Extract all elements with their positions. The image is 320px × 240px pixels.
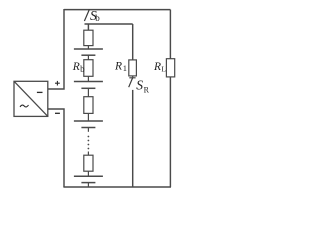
resistor R1 (129, 60, 137, 76)
svg-text:S: S (136, 78, 143, 93)
battery cell 1 short plate (81, 54, 95, 56)
svg-text:b: b (80, 64, 85, 74)
wire (87, 171, 89, 176)
svg-text:1: 1 (123, 63, 127, 73)
resistor Rb (cell 2 internal resistance) (84, 60, 93, 77)
wire column top stub (87, 24, 89, 30)
rectifier AC tilde symbol (20, 105, 29, 107)
svg-text:R: R (153, 61, 161, 73)
svg-text:R: R (72, 61, 80, 73)
battery cell 1 long plate (74, 48, 103, 50)
wire second horizontal node A (85, 23, 133, 25)
battery cell 2 long plate (74, 81, 103, 83)
wire (87, 76, 89, 81)
svg-text:b: b (95, 13, 100, 23)
wire (132, 76, 134, 78)
rectifier DC minus symbol (37, 91, 43, 93)
wire R1 branch upper (132, 24, 134, 60)
battery cell 2 short plate (81, 87, 95, 89)
wire (87, 152, 89, 156)
label + terminal (55, 81, 60, 86)
wire (87, 55, 89, 60)
wire R1 branch lower (132, 90, 134, 187)
wire bottom horizontal (63, 186, 171, 188)
rectifier U1 box (14, 81, 48, 116)
switch SR contact tick (129, 77, 135, 79)
wire top horizontal (64, 9, 170, 11)
resistor RL (166, 59, 174, 77)
wire RL branch upper (169, 10, 171, 59)
svg-text:R: R (114, 61, 122, 73)
wire (87, 183, 89, 187)
wire left riser (-) (48, 109, 64, 187)
battery cell 3 internal resistor (84, 97, 93, 114)
wire RL branch lower (169, 77, 171, 187)
wire (87, 128, 89, 132)
battery cell n long plate (74, 175, 103, 177)
switch Sb blade (84, 9, 89, 21)
svg-text:L: L (161, 65, 166, 74)
battery cell n internal resistor (84, 155, 93, 171)
svg-text:R: R (144, 85, 150, 94)
switch SR blade (129, 78, 133, 87)
battery cell n short plate (81, 182, 95, 184)
battery cell 3 long plate (74, 120, 103, 122)
wire (87, 88, 89, 96)
continuation dots (88, 136, 90, 150)
wire left riser (+) (48, 9, 64, 89)
battery cell 3 short plate (81, 127, 95, 129)
wire (87, 46, 89, 49)
battery cell 1 internal resistor (84, 30, 93, 45)
wire (87, 113, 89, 121)
label - terminal (55, 112, 60, 114)
